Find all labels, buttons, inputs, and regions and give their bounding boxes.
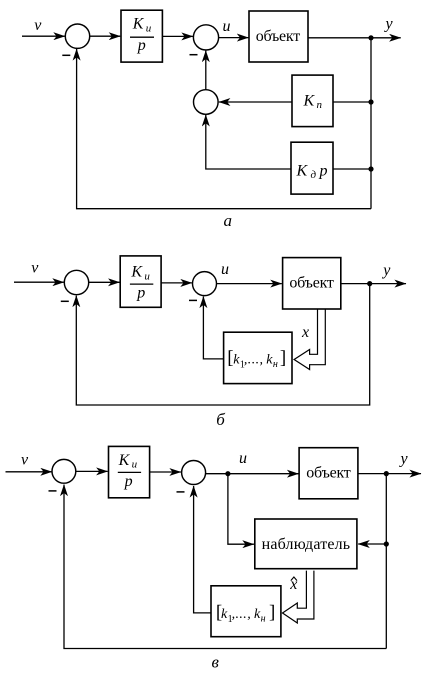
svg-text:x: x [289,576,297,593]
wire: right vertical bus from output (part v) [385,474,387,649]
junction dot at output (part a) [368,35,373,40]
node label y (part a) [384,16,394,33]
svg-text:К: К [132,16,145,33]
wire: integrator to summer S2b [161,282,192,284]
wire: S2a to object block [219,37,249,39]
wire: bus to Kp block [333,101,371,103]
svg-text:p: p [319,163,328,180]
svg-text:наблюдатель: наблюдатель [262,536,351,553]
svg-text:y: y [384,16,394,33]
svg-text:объект: объект [306,465,351,482]
svg-text:ν: ν [34,17,42,34]
summing junction S1a [65,24,89,48]
wire: [k] block to S2v bottom [194,486,211,613]
block [k1,...,kn] (part b) [224,332,292,383]
svg-text:в: в [212,653,220,672]
minus sign at S1v [49,490,57,492]
wire: integrator to summer S2v [150,471,181,473]
caption a [224,211,233,230]
wire: outer feedback bottom to S1b (part b) [76,284,369,405]
svg-text:б: б [216,410,225,429]
wire: outer feedback bottom to S1v (part v) [64,485,386,649]
svg-text:п: п [317,99,323,111]
wire: [k] block to S2b bottom [203,297,223,359]
svg-text:u: u [239,450,247,467]
svg-text:н: н [261,613,266,624]
wire: S1v to integrator block [76,470,108,472]
svg-text:д: д [311,169,317,181]
block Ki/p (integrator) part v [109,446,150,497]
hollow state-vector arrow x (part b) [294,309,325,370]
junction dot at u tap (part v) [225,471,230,476]
summing junction S1b [64,270,88,294]
wire: object output to y arrow (part b) [341,283,406,285]
wire: S2v to object block [206,473,299,475]
junction dot at Kp tap (part a) [368,99,373,104]
minus sign at S1b [61,300,69,302]
block Ki/p (integrator) part a [121,10,162,62]
svg-text:К: К [303,93,316,110]
wire: integrator to summer S2a [162,35,193,37]
svg-text:p: p [136,284,145,301]
node label v (nu) [34,17,42,34]
wire: S1b to integrator block [89,281,120,283]
wire: input v arrow into summer S1a [22,35,65,37]
svg-text:К: К [296,163,309,180]
svg-text:]: ] [269,602,275,623]
block Ki/p (integrator) part b [120,256,161,307]
svg-text:и: и [146,22,152,34]
svg-text:а: а [224,211,233,230]
svg-text:объект: объект [289,275,334,292]
svg-text:p: p [124,473,133,490]
wire: input v arrow into summer S1v [6,471,52,473]
caption v [212,653,220,672]
minus sign at S1a [62,54,70,56]
wire: S2b to object block [217,283,282,285]
svg-text:y: y [381,262,391,279]
summing junction S1v [52,459,76,483]
block [k1,...,kn] (part v) [211,586,281,637]
summing junction S2b [193,272,217,296]
node label x (part b) [301,324,309,341]
svg-text:и: и [144,270,150,282]
junction dot at output (part b) [367,281,372,286]
svg-text:y: y [399,451,409,468]
junction dot at observer tap (part v) [384,541,389,546]
wire: right vertical feedback bus (part a) [370,38,372,209]
caption b [216,410,225,429]
svg-text:ν: ν [31,260,39,277]
wire: S3a to S2a bottom [205,51,207,90]
svg-text:К: К [118,452,131,469]
summing junction S2a [193,25,218,50]
node label x-hat (part v) [289,576,297,593]
minus sign at S2v [177,491,185,493]
junction dot at Kd tap (part a) [368,166,373,171]
block object (part a) [249,11,308,62]
block observer (nablyudatel) [255,519,357,569]
block Kd p (part a) [291,142,333,194]
wire: object output to y arrow (part v) [358,473,421,475]
svg-text:p: p [137,37,146,54]
node label y (part b) [381,262,391,279]
block object (part b) [283,258,341,309]
summing junction S3a [194,90,219,115]
svg-text:ν: ν [21,451,29,468]
wire: bus to Kd block [333,168,371,170]
svg-text:]: ] [280,348,286,369]
block Kp (part a) [292,75,333,127]
node label v (nu) part v [21,451,29,468]
node label u (part v) [239,450,247,467]
wire: bus to observer right input [358,543,386,545]
wire: Kp to summer S3a [219,101,292,103]
block object (part v) [299,448,358,499]
svg-text:,...,: ,..., [244,353,264,368]
wire: object output to y arrow (part a) [308,37,401,39]
summing junction S2v [182,461,206,485]
svg-text:u: u [221,261,229,278]
svg-text:объект: объект [256,28,301,45]
svg-text:x: x [301,324,309,341]
wire: outer feedback bottom to S1a (part a) [77,49,371,209]
svg-text:u: u [223,18,231,35]
node label y (part v) [399,451,409,468]
node label u (part b) [221,261,229,278]
svg-text:К: К [130,264,143,281]
wire: input v arrow into summer S1b [14,281,64,283]
svg-text:и: и [132,458,138,470]
node label u (part a) [223,18,231,35]
wire: Kd p to S3a bottom [206,115,291,169]
minus sign at S2b [189,299,197,301]
wire: S1a to integrator block [90,35,121,37]
hollow estimated-state arrow x-hat (part v) [283,571,314,623]
svg-text:,...,: ,..., [232,607,252,622]
wire: u tap down to observer left input [228,474,254,545]
svg-text:н: н [273,359,278,370]
node label v (nu) part b [31,260,39,277]
minus sign at S2a [190,54,198,56]
junction dot at output (part v) [384,471,389,476]
